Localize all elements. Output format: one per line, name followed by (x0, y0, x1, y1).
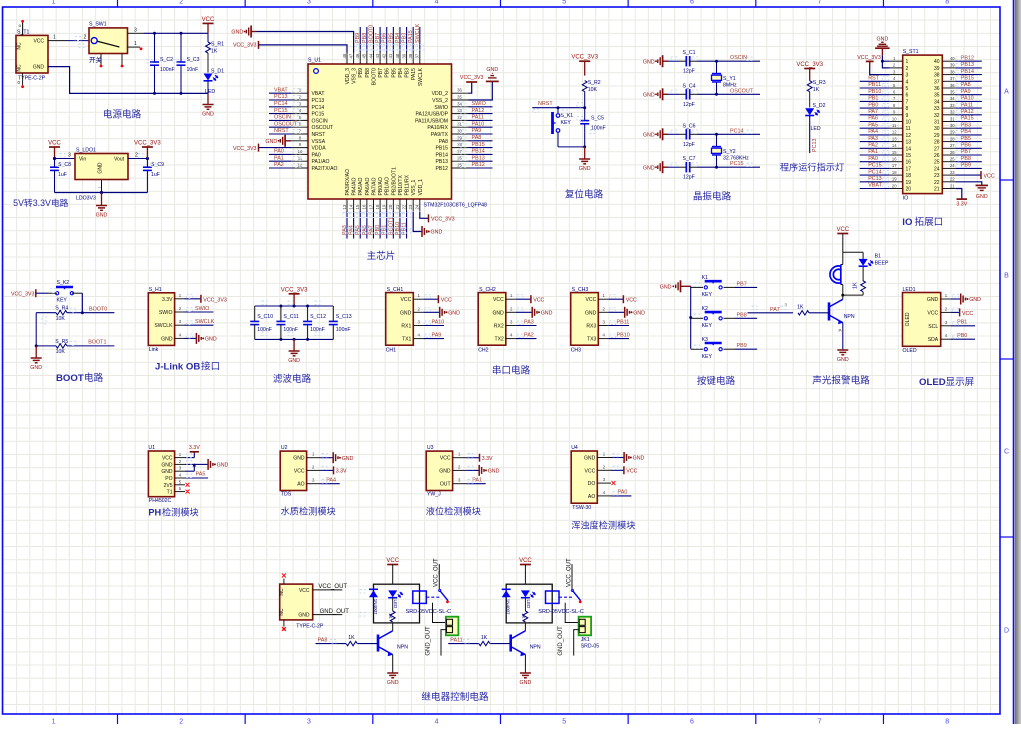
relay contact (426, 596, 439, 598)
svg-text:39: 39 (934, 66, 940, 72)
svg-text:6: 6 (690, 0, 694, 6)
svg-text:VSSA: VSSA (312, 139, 326, 145)
svg-text:22: 22 (950, 177, 955, 182)
svg-text:NRST: NRST (538, 101, 553, 107)
S_CH2 TX wire PA2 (516, 338, 537, 340)
svg-text:PB12: PB12 (961, 55, 974, 61)
S_CH1 GND (423, 311, 440, 313)
svg-text:PA4: PA4 (868, 129, 878, 135)
svg-text:U4: U4 (571, 445, 578, 451)
svg-text:VCC_3V3: VCC_3V3 (281, 287, 308, 293)
svg-text:12: 12 (906, 133, 912, 139)
svg-text:液位检测模块: 液位检测模块 (426, 506, 481, 517)
svg-text:TX2: TX2 (494, 337, 504, 343)
svg-text:YW_J: YW_J (427, 492, 441, 498)
connector S_H1 J-Link body (148, 293, 174, 346)
svg-text:GND: GND (205, 337, 217, 343)
svg-text:GND: GND (643, 59, 655, 65)
svg-text:GND: GND (30, 365, 42, 371)
svg-text:PA1/AO: PA1/AO (312, 159, 330, 165)
svg-text:PA2/TX/AO: PA2/TX/AO (312, 166, 338, 172)
svg-text:5V转3.3V电路: 5V转3.3V电路 (13, 197, 68, 208)
button S_K1 KEY (557, 108, 559, 113)
svg-text:TDS: TDS (281, 492, 292, 498)
svg-text:PA11: PA11 (472, 115, 484, 121)
wire emitter to gnd (842, 323, 844, 350)
svg-text:VCC_3V3: VCC_3V3 (233, 42, 257, 48)
svg-text:SWCLK: SWCLK (415, 23, 421, 43)
outer border right (1013, 0, 1015, 724)
svg-text:2: 2 (906, 66, 909, 72)
capacitor S_C13 100nF (332, 306, 334, 321)
svg-text:1K: 1K (853, 282, 859, 289)
svg-text:PB4: PB4 (398, 68, 404, 78)
wire contact to connector (433, 603, 446, 623)
pin T1 top (22, 22, 24, 35)
svg-text:声光报警电路: 声光报警电路 (812, 375, 870, 387)
svg-text:38: 38 (408, 53, 413, 58)
svg-text:100nF: 100nF (310, 327, 325, 333)
svg-text:4: 4 (435, 0, 439, 6)
svg-text:RX2: RX2 (494, 324, 504, 330)
svg-text:10nF: 10nF (187, 67, 199, 73)
svg-text:GND: GND (585, 310, 597, 316)
svg-text:19: 19 (382, 204, 387, 209)
svg-text:LED: LED (205, 89, 215, 95)
svg-text:VCC_3V3: VCC_3V3 (857, 55, 881, 61)
svg-text:S_R2: S_R2 (588, 80, 601, 86)
svg-text:J-Link OB: J-Link OB (155, 362, 200, 373)
svg-text:VCC_3V3: VCC_3V3 (460, 75, 484, 81)
svg-text:27: 27 (950, 143, 955, 148)
svg-text:3.3V: 3.3V (189, 445, 200, 451)
svg-text:GND: GND (877, 36, 889, 42)
capacitor S_C9 1uF (146, 159, 148, 168)
svg-text:PB8: PB8 (737, 312, 747, 318)
svg-text:NC: NC (17, 42, 23, 50)
svg-text:PB11: PB11 (617, 319, 630, 325)
connector S_T1 TYPE-C-2P (16, 35, 48, 73)
svg-text:1K: 1K (797, 305, 804, 311)
svg-text:27: 27 (934, 146, 940, 152)
svg-text:15: 15 (355, 204, 360, 209)
S_CH2 VCC port (516, 298, 531, 300)
capacitor S_C7 12pF (668, 166, 679, 168)
svg-text:VCC_OUT: VCC_OUT (318, 584, 347, 590)
svg-text:S_T1: S_T1 (17, 30, 30, 36)
svg-text:PA1: PA1 (472, 478, 482, 484)
svg-text:3.3V: 3.3V (162, 297, 173, 303)
svg-text:PA15: PA15 (411, 68, 417, 80)
svg-text:GND: GND (520, 680, 532, 686)
svg-text:40: 40 (934, 59, 940, 65)
svg-text:VCC: VCC (386, 558, 399, 564)
svg-text:PA3: PA3 (342, 225, 348, 235)
svg-text:GND: GND (298, 613, 310, 619)
svg-text:VCC: VCC (202, 17, 215, 23)
svg-text:GND: GND (633, 311, 645, 317)
svg-text:PC13: PC13 (312, 98, 325, 104)
svg-text:GND: GND (541, 311, 553, 317)
svg-text:PA9: PA9 (472, 128, 482, 134)
svg-text:7: 7 (906, 99, 909, 105)
wire VCC rail (143, 32, 208, 34)
svg-text:PA5/AO: PA5/AO (358, 177, 364, 195)
svg-text:40: 40 (950, 56, 955, 61)
svg-text:S_R3: S_R3 (813, 80, 826, 86)
svg-text:5: 5 (906, 86, 909, 92)
J-Link SWCLK wire (185, 324, 214, 326)
wire reset gnd rail (558, 146, 585, 148)
svg-text:VCC: VCC (927, 310, 938, 316)
svg-text:16: 16 (892, 157, 897, 162)
svg-text:S_C5: S_C5 (591, 115, 604, 121)
svg-text:SWIO: SWIO (159, 310, 173, 316)
svg-text:PB5: PB5 (388, 33, 394, 43)
capacitor S_C3 10nF (180, 33, 182, 62)
svg-text:8MHz: 8MHz (723, 82, 737, 88)
svg-text:GND: GND (643, 93, 655, 99)
svg-text:32: 32 (950, 110, 955, 115)
svg-text:OLED: OLED (905, 312, 911, 326)
svg-text:PB10/TX: PB10/TX (398, 175, 404, 196)
svg-text:26: 26 (950, 150, 955, 155)
svg-text:C: C (1004, 449, 1009, 456)
svg-text:VSS_3: VSS_3 (352, 68, 358, 84)
svg-text:29: 29 (950, 130, 955, 135)
svg-text:S_K2: S_K2 (57, 280, 70, 286)
svg-text:PB6: PB6 (382, 33, 388, 43)
svg-text:PA8: PA8 (961, 82, 971, 88)
svg-text:VCC: VCC (836, 227, 849, 233)
ground GND relay (520, 672, 531, 674)
svg-text:VCC: VCC (585, 468, 596, 474)
power port VCC LDO (49, 146, 60, 148)
svg-text:VCC: VCC (626, 469, 637, 475)
svg-text:22: 22 (401, 204, 406, 209)
svg-text:TX3: TX3 (587, 337, 597, 343)
svg-text:SDA: SDA (928, 337, 939, 343)
svg-text:PC13: PC13 (812, 139, 818, 153)
svg-text:滤波电路: 滤波电路 (273, 373, 312, 385)
ground GND alarm (837, 349, 848, 351)
svg-text:VDD_3: VDD_3 (345, 68, 351, 85)
svg-text:NPN: NPN (844, 314, 855, 320)
svg-text:PA3: PA3 (868, 136, 878, 142)
svg-text:S_C7: S_C7 (683, 156, 696, 162)
relay contact (559, 596, 572, 598)
connector JK screw terminal (446, 617, 459, 636)
power port VCC relay (387, 564, 398, 566)
svg-text:GND: GND (217, 463, 229, 469)
svg-text:PC15: PC15 (868, 163, 882, 169)
power port VCC_3V3 indicator (804, 68, 815, 70)
svg-text:SWIO: SWIO (434, 105, 448, 111)
svg-text:GND: GND (579, 166, 591, 172)
capacitor S_C1 12pF (668, 60, 679, 62)
svg-text:S_C2: S_C2 (160, 57, 173, 63)
svg-text:36: 36 (950, 83, 955, 88)
switch S_SW1 (89, 28, 128, 54)
svg-text:PB3: PB3 (405, 68, 411, 78)
svg-text:CH3: CH3 (571, 348, 581, 354)
svg-text:VCC_3V3: VCC_3V3 (134, 141, 161, 147)
svg-text:PA3/RX/AO: PA3/RX/AO (345, 169, 351, 196)
svg-text:S_LDO1: S_LDO1 (76, 148, 96, 154)
svg-text:PA0: PA0 (868, 156, 878, 162)
svg-text:38: 38 (950, 69, 955, 74)
svg-text:PA10/RX: PA10/RX (427, 125, 448, 131)
svg-text:S_C10: S_C10 (257, 314, 273, 320)
svg-text:SWIO: SWIO (472, 101, 486, 107)
buzzer B1 BEEP (842, 252, 844, 258)
svg-text:PB8: PB8 (961, 156, 971, 162)
svg-text:PC15: PC15 (274, 108, 288, 114)
svg-text:U3: U3 (427, 445, 434, 451)
selection marks (75, 37, 81, 41)
connector pin22 GND (955, 182, 982, 185)
svg-text:19: 19 (906, 180, 912, 186)
wire GND to pins 1 2 (882, 55, 889, 68)
svg-text:35: 35 (934, 93, 940, 99)
svg-text:25: 25 (934, 160, 940, 166)
svg-text:PA12: PA12 (961, 109, 974, 115)
svg-text:31: 31 (950, 116, 955, 121)
svg-text:35: 35 (457, 95, 462, 100)
svg-text:水质检测模块: 水质检测模块 (281, 506, 336, 517)
svg-text:VCC_3V3: VCC_3V3 (203, 297, 227, 303)
module U1 PH4502C body (148, 451, 174, 497)
svg-text:5: 5 (562, 0, 566, 6)
svg-text:PB9: PB9 (355, 33, 361, 43)
svg-text:S_R1: S_R1 (211, 42, 224, 48)
svg-text:PB3: PB3 (961, 122, 971, 128)
svg-text:PA6/AO: PA6/AO (365, 177, 371, 195)
svg-text:GND: GND (976, 194, 988, 200)
svg-text:37: 37 (415, 53, 420, 58)
svg-text:Link: Link (149, 347, 159, 353)
wire PB9 (735, 348, 757, 350)
svg-text:GND: GND (584, 456, 596, 462)
svg-text:PA5: PA5 (355, 225, 361, 235)
resistor S_R1 1K (207, 33, 209, 42)
transistor NPN relay (509, 635, 512, 652)
svg-text:8: 8 (906, 106, 909, 112)
svg-text:PB15: PB15 (436, 146, 449, 152)
svg-text:K3: K3 (702, 337, 708, 343)
svg-text:AO: AO (297, 482, 304, 488)
wire PC14 (697, 133, 760, 135)
svg-text:PA1: PA1 (868, 149, 878, 155)
svg-text:VCC: VCC (33, 39, 44, 45)
svg-text:TSW-30: TSW-30 (572, 505, 591, 511)
svg-text:PB9: PB9 (737, 343, 747, 349)
svg-text:U2: U2 (281, 445, 288, 451)
button K3 KEY (691, 348, 703, 350)
svg-text:NC: NC (279, 588, 285, 596)
J-Link GND (185, 337, 197, 339)
svg-text:PB3: PB3 (402, 33, 408, 43)
capacitor S_C8 1uF (54, 159, 56, 168)
svg-text:SWIO: SWIO (195, 306, 209, 312)
svg-text:KEY: KEY (702, 292, 713, 298)
S_CH2 RX wire PA3 (516, 325, 537, 327)
wire OSCOUT (697, 93, 760, 95)
svg-text:复位电路: 复位电路 (565, 189, 604, 201)
svg-text:PB7: PB7 (375, 33, 381, 43)
svg-text:OSCOUT: OSCOUT (730, 88, 754, 94)
S_CH3 RX wire PB11 (608, 325, 629, 327)
wire GND rail (48, 67, 208, 94)
svg-text:VCC_3V3: VCC_3V3 (11, 292, 35, 298)
capacitor S_C10 100nF (254, 306, 256, 321)
svg-text:PB7: PB7 (961, 149, 971, 155)
svg-text:SRD-05VDC-SL-C: SRD-05VDC-SL-C (406, 609, 452, 615)
power port VCC (203, 22, 214, 24)
svg-text:36: 36 (457, 88, 462, 93)
svg-text:GND: GND (265, 139, 277, 145)
svg-text:开关: 开关 (89, 55, 103, 64)
TYPEC top pin (283, 579, 285, 585)
J-Link VCC_3V3 port (185, 298, 201, 300)
svg-text:VCC: VCC (48, 141, 61, 147)
svg-text:5: 5 (562, 719, 566, 725)
svg-text:2: 2 (179, 0, 183, 6)
svg-text:6: 6 (690, 719, 694, 725)
svg-text:23: 23 (408, 204, 413, 209)
svg-text:41: 41 (388, 53, 393, 58)
svg-text:GND: GND (643, 133, 655, 139)
svg-text:SCL: SCL (928, 324, 938, 330)
svg-text:OUT: OUT (440, 482, 451, 488)
module U4 TSW-30 body (571, 451, 597, 503)
svg-text:BOOT1: BOOT1 (88, 340, 106, 346)
svg-text:BOOT: BOOT (56, 373, 84, 384)
capacitor S_C12 100nF (307, 306, 309, 321)
svg-text:AO: AO (588, 494, 595, 500)
svg-text:PA11: PA11 (450, 637, 462, 643)
svg-text:2: 2 (179, 719, 183, 725)
svg-text:VCC: VCC (493, 297, 504, 303)
wire emitter GND (524, 655, 526, 673)
U1 unconnected T1 (186, 490, 190, 494)
svg-text:KEY: KEY (702, 323, 713, 329)
svg-text:21: 21 (934, 187, 940, 193)
svg-text:3: 3 (68, 153, 71, 159)
OLED SDA wire PB0 (951, 338, 975, 340)
svg-text:15: 15 (906, 153, 912, 159)
svg-text:1K: 1K (348, 635, 355, 641)
svg-text:PB12: PB12 (436, 166, 449, 172)
svg-text:S_C12: S_C12 (310, 314, 326, 320)
svg-text:10: 10 (906, 120, 912, 126)
svg-text:S_C11: S_C11 (283, 314, 299, 320)
svg-text:37: 37 (934, 79, 940, 85)
svg-text:PA6: PA6 (362, 225, 368, 235)
svg-text:GND: GND (293, 456, 305, 462)
svg-text:IO: IO (902, 217, 913, 228)
svg-text:VCC_OUT: VCC_OUT (434, 558, 440, 587)
svg-text:PA1: PA1 (274, 155, 284, 161)
svg-text:PA5: PA5 (196, 472, 206, 478)
svg-text:PC13: PC13 (274, 94, 288, 100)
svg-text:4: 4 (435, 719, 439, 725)
svg-text:B: B (1004, 273, 1009, 280)
svg-text:30: 30 (934, 126, 940, 132)
diode 1N4007 (369, 590, 378, 597)
svg-text:PB5: PB5 (391, 68, 397, 78)
pin vout wire (128, 158, 147, 160)
svg-text:PA10: PA10 (472, 121, 485, 127)
svg-text:VCC: VCC (533, 298, 544, 304)
svg-text:3.3V: 3.3V (956, 202, 967, 208)
svg-text:S_C13: S_C13 (336, 314, 352, 320)
svg-text:PH: PH (148, 507, 161, 517)
svg-text:3.3V: 3.3V (482, 456, 493, 462)
svg-text:DO: DO (588, 481, 596, 487)
wire alarm top rail (843, 251, 863, 253)
svg-text:CH2: CH2 (478, 348, 488, 354)
svg-text:PA4: PA4 (326, 478, 336, 484)
svg-text:2: 2 (84, 35, 87, 41)
svg-text:GND: GND (161, 462, 173, 468)
svg-text:Vin: Vin (79, 157, 86, 163)
svg-text:PO: PO (165, 476, 172, 482)
svg-text:15: 15 (892, 150, 897, 155)
svg-text:OSCOUT: OSCOUT (312, 125, 334, 131)
svg-text:VCC: VCC (294, 468, 305, 474)
svg-text:U1: U1 (148, 445, 155, 451)
capacitor S_C11 100nF (280, 306, 282, 321)
svg-text:S_U1: S_U1 (308, 58, 321, 64)
svg-text:PA11/USB/DM: PA11/USB/DM (415, 118, 448, 124)
svg-text:VCC_3V3: VCC_3V3 (233, 146, 257, 152)
svg-text:12pF: 12pF (683, 69, 695, 75)
svg-text:PB1: PB1 (868, 96, 878, 102)
U1 PO wire PA5 (185, 477, 208, 479)
OLED VCC port (951, 311, 960, 313)
J-Link SWIO wire (185, 311, 214, 313)
ground GND power (207, 93, 209, 104)
U1 unconnected 2V5 (186, 483, 190, 487)
svg-text:电路: 电路 (84, 372, 104, 384)
svg-text:PA9: PA9 (961, 89, 971, 95)
svg-text:K2: K2 (702, 306, 708, 312)
svg-text:18: 18 (906, 173, 912, 179)
svg-text:GND: GND (439, 468, 451, 474)
svg-text:GND: GND (643, 165, 655, 171)
svg-text:OSCIN: OSCIN (274, 115, 291, 121)
svg-text:BOOT0: BOOT0 (371, 68, 377, 85)
svg-text:检测模块: 检测模块 (162, 506, 199, 517)
connector TYPE-C-2P output (280, 584, 313, 620)
svg-text:S_D1: S_D1 (211, 69, 224, 75)
svg-text:VSS_1: VSS_1 (411, 179, 417, 195)
svg-text:GND: GND (202, 112, 214, 118)
svg-text:1K: 1K (481, 635, 488, 641)
svg-text:KEY: KEY (702, 354, 713, 360)
svg-text:PB4: PB4 (395, 33, 401, 43)
svg-text:20: 20 (388, 204, 393, 209)
svg-text:2V5: 2V5 (164, 483, 173, 489)
wire OSCIN (697, 60, 760, 62)
button S_K2 KEY (56, 292, 59, 295)
svg-text:GND_OUT: GND_OUT (558, 626, 564, 656)
svg-text:17: 17 (368, 204, 373, 209)
S_CH1 TX wire PA9 (423, 338, 444, 340)
svg-text:1: 1 (52, 719, 56, 725)
svg-text:GND: GND (927, 297, 939, 303)
